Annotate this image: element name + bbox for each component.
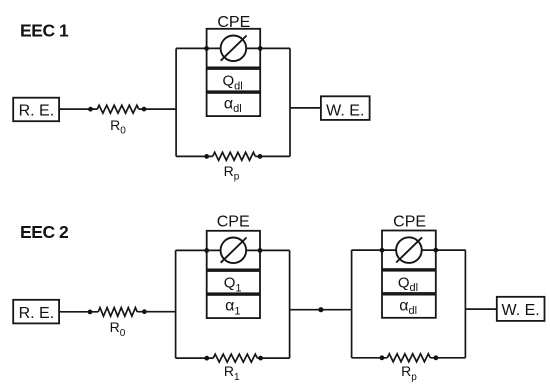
wire: top branch through CPE (EEC 2 section 2) xyxy=(352,249,466,251)
wire between the two parallel sections (EEC 2) xyxy=(290,309,352,311)
CPE element symbol: circle with slash (EEC 2 section 1) xyxy=(221,238,247,264)
wire: bottom branch left segment (EEC 2 section 2) xyxy=(352,357,388,359)
wire: bottom branch left segment (EEC 2 section 1) xyxy=(176,357,214,359)
node dot left of R0 (EEC 1) xyxy=(88,107,93,112)
wire: right vertical of parallel section (EEC 1) xyxy=(289,48,291,156)
node dot left of Rp (EEC 1) xyxy=(204,154,209,159)
node dot right of R1 (EEC 2) xyxy=(258,356,263,361)
CPE box (EEC 2 section 2) xyxy=(382,231,436,270)
node dot at CPE left terminal (EEC 2 section 2) xyxy=(380,248,385,253)
CPE element symbol: circle with slash (EEC 1) xyxy=(221,36,247,62)
svg-text:EEC 2: EEC 2 xyxy=(20,222,69,242)
svg-text:W. E.: W. E. xyxy=(501,302,539,319)
wire: left vertical of second parallel section (EEC 2) xyxy=(351,250,353,358)
resistor Rp (EEC 2) xyxy=(387,354,430,362)
node dot right of R0 (EEC 1) xyxy=(142,107,147,112)
wire: left vertical of first parallel section (EEC 2) xyxy=(175,250,177,358)
wire: bottom branch left segment (EEC 1) xyxy=(176,155,213,157)
wire: left vertical of parallel section (EEC 1) xyxy=(175,48,177,156)
parameter box Qdl (EEC 2 section 2) xyxy=(382,271,436,294)
wire parallel section to W.E. (EEC 1) xyxy=(290,107,321,109)
svg-text:EEC 1: EEC 1 xyxy=(20,21,69,41)
electrode box W.E. (EEC 1) xyxy=(321,96,370,120)
wire: bottom branch right segment (EEC 1) xyxy=(255,155,290,157)
wire R0 to parallel section (EEC 1) xyxy=(139,108,176,110)
svg-text:R. E.: R. E. xyxy=(19,103,55,120)
svg-text:CPE: CPE xyxy=(393,214,426,231)
node dot right of Rp (EEC 2) xyxy=(434,355,439,360)
node dot at CPE right terminal (EEC 2 section 1) xyxy=(258,248,263,253)
node dot right of Rp (EEC 1) xyxy=(258,154,263,159)
wire: right vertical of second parallel section (EEC 2) xyxy=(464,250,466,358)
electrode box R.E. (EEC 1) xyxy=(13,98,59,122)
wire: bottom branch right segment (EEC 2 section 2) xyxy=(430,357,465,359)
svg-text:R. E.: R. E. xyxy=(19,305,55,322)
node dot at CPE right terminal (EEC 1) xyxy=(258,46,263,51)
node dot right of R0 (EEC 2) xyxy=(142,309,147,314)
node dot left of Rp (EEC 2) xyxy=(380,355,385,360)
node dot at CPE left terminal (EEC 2 section 1) xyxy=(204,248,209,253)
wire R.E. to resistor R0 (EEC 1) xyxy=(59,108,97,110)
node dot left of R0 (EEC 2) xyxy=(88,310,93,315)
resistor R0 (EEC 1) xyxy=(97,105,139,113)
CPE box (EEC 1) xyxy=(207,29,261,68)
node dot at CPE right terminal (EEC 2 section 2) xyxy=(433,248,438,253)
wire: bottom branch right segment (EEC 2 section 1) xyxy=(257,357,289,359)
node dot between sections (EEC 2) xyxy=(318,307,323,312)
parameter box alpha-dl (EEC 2 section 2) xyxy=(382,295,436,318)
parameter box alpha-dl (EEC 1) xyxy=(207,93,261,116)
resistor Rp (EEC 1) xyxy=(213,152,256,160)
node dot left of R1 (EEC 2) xyxy=(204,356,209,361)
wire: right vertical of first parallel section (EEC 2) xyxy=(289,250,291,358)
wire: top branch through CPE (EEC 2 section 1) xyxy=(176,249,290,251)
parameter box Q1 (EEC 2 section 1) xyxy=(207,271,260,294)
svg-text:W. E.: W. E. xyxy=(326,102,364,119)
svg-text:CPE: CPE xyxy=(217,214,250,231)
CPE element symbol: circle with slash (EEC 2 section 2) xyxy=(396,237,422,263)
electrode box R.E. (EEC 2) xyxy=(13,300,59,324)
resistor R0 (EEC 2) xyxy=(98,308,137,317)
wire second parallel section to W.E. (EEC 2) xyxy=(465,308,496,310)
wire: top branch through CPE (EEC 1) xyxy=(176,47,290,49)
CPE box (EEC 2 section 1) xyxy=(207,231,260,270)
resistor R1 (EEC 2) xyxy=(213,354,257,362)
parameter box Qdl (EEC 1) xyxy=(207,69,261,92)
wire R0 to first parallel section (EEC 2) xyxy=(137,311,175,313)
wire R.E. to resistor R0 (EEC 2) xyxy=(59,311,98,313)
parameter box alpha-1 (EEC 2 section 1) xyxy=(207,295,260,318)
electrode box W.E. (EEC 2) xyxy=(497,297,545,321)
node dot at CPE left terminal (EEC 1) xyxy=(204,46,209,51)
